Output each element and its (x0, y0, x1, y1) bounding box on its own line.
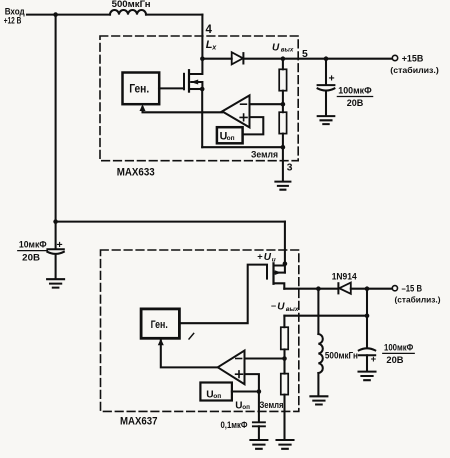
wire Земля rail (202, 146, 283, 148)
dashed box MAX637 (101, 250, 299, 411)
svg-text:(стабилиз.): (стабилиз.) (390, 65, 439, 75)
svg-text:+: + (257, 252, 263, 262)
wire gate path (179, 265, 267, 324)
box U1 Ген. (oscillator) (123, 73, 160, 105)
wire Lx to diode (202, 58, 231, 60)
svg-text:вых: вых (286, 306, 299, 313)
wire R1 top (282, 59, 284, 70)
ground C1 (318, 116, 335, 124)
node feedback divider (281, 102, 286, 107)
svg-text:+: + (329, 73, 335, 85)
svg-text:1N914: 1N914 (332, 271, 358, 282)
inductor L2 500мкГн (318, 334, 322, 373)
node FB2 (282, 356, 287, 361)
label L2 value 500мкГн (325, 351, 358, 361)
wire noninverting input loop (243, 117, 264, 134)
svg-text:20В: 20В (386, 355, 403, 365)
node -Uвых label (271, 301, 299, 313)
label C4 value 100мкФ 20В (371, 343, 414, 366)
svg-text:U: U (272, 42, 280, 53)
label C1 value 100мкФ 20В (329, 73, 372, 109)
wire pin 3 to ground (282, 147, 284, 181)
op-amp A2 comparator (218, 351, 245, 385)
wire R1 to R2 (282, 91, 284, 113)
wire +12V rail to MAX637 (56, 221, 285, 223)
svg-text:100мкФ: 100мкФ (384, 343, 413, 353)
svg-text:+: + (57, 239, 63, 251)
ground pin3 (275, 182, 290, 190)
svg-text:оп: оп (242, 404, 250, 411)
pin 4 (206, 24, 213, 36)
wire diode to Uвых (243, 58, 283, 60)
node Земля label (251, 150, 278, 161)
svg-text:20В: 20В (347, 98, 364, 108)
wire inductor to ground (317, 373, 319, 396)
wire Uоп pin down (258, 392, 260, 423)
wire pin5 to +15V terminal (283, 58, 392, 60)
node Uвых (281, 56, 286, 61)
ground L2 (310, 396, 327, 404)
node Q1 source junction (200, 87, 205, 92)
svg-text:Ген.: Ген. (129, 82, 149, 96)
wire inductor to Lx corner (146, 14, 202, 16)
svg-text:Земля: Земля (251, 150, 278, 161)
inductor L1 500мкГн (110, 10, 146, 15)
label +15В (стабилиз.) (390, 54, 439, 75)
terminal +15V (392, 55, 397, 60)
svg-text:5: 5 (302, 49, 308, 60)
wire Q2 source rail (284, 288, 318, 290)
svg-text:оп: оп (227, 135, 235, 142)
wire gate to Ген. (159, 87, 184, 89)
capacitor C2 10мкФ (53, 219, 58, 224)
resistor R1 (279, 69, 286, 90)
svg-text:Земля: Земля (260, 400, 284, 410)
wire to diode D2 (318, 288, 338, 290)
wire R2 bottom (282, 134, 284, 148)
svg-text:+12 В: +12 В (4, 15, 22, 25)
wire inverting input 2 (245, 357, 285, 359)
wire node to R4 (283, 359, 285, 374)
wire R4 to ground (283, 395, 285, 440)
svg-text:оп: оп (213, 393, 221, 400)
diode D2 1N914 (337, 283, 339, 293)
node +Uи junction (283, 261, 288, 266)
pin 5 (302, 49, 308, 60)
wire Q1 source down (201, 89, 203, 147)
pin 3 (287, 163, 293, 174)
resistor R3 (281, 327, 288, 349)
svg-text:(стабилиз.): (стабилиз.) (395, 295, 441, 305)
svg-text:–15 В: –15 В (402, 283, 423, 293)
node +15V junction (324, 56, 329, 61)
wire -Uвых feedback (284, 315, 367, 317)
diode D1 (232, 52, 243, 64)
wire input to inductor (27, 14, 110, 16)
svg-text:+15В: +15В (402, 54, 424, 65)
ground R4 (277, 440, 294, 449)
box U4 Uоп reference (200, 383, 232, 401)
box U3 Ген. (oscillator) (141, 309, 179, 338)
wire diode to -15V terminal (351, 288, 392, 290)
node -Uвых junction (365, 313, 370, 318)
wire -Uвых to R3 (283, 316, 285, 328)
svg-text:MAX637: MAX637 (120, 416, 158, 428)
box U2 Uоп reference (217, 127, 243, 143)
capacitor C1 100мкФ (325, 59, 327, 85)
dashed box MAX633 (100, 36, 298, 161)
node output cap junction (365, 286, 370, 291)
svg-text:MAX633: MAX633 (117, 166, 155, 178)
node Uвых label (272, 42, 294, 53)
resistor R4 (281, 374, 288, 395)
wire A1 output to Ген. (143, 107, 223, 112)
wire R3 to node (283, 349, 285, 358)
wire Lx2 down to inductor (317, 289, 319, 334)
node Lx junction (200, 56, 205, 61)
op-amp A1 comparator (222, 95, 249, 127)
label 500мкГн (112, 0, 151, 9)
transistor Q1 MOSFET (184, 59, 202, 92)
transistor Q2 MOSFET (267, 263, 285, 288)
wire +Uи down (284, 222, 286, 264)
label C2 value 10мкФ 20В (19, 239, 63, 262)
svg-text:–: – (271, 301, 276, 311)
svg-text:U: U (264, 252, 272, 263)
resistor R2 (279, 112, 286, 133)
wire A2 output to Ген. (161, 340, 218, 367)
node +Uи label (257, 252, 276, 264)
wire Lx vertical pin 4 (201, 15, 203, 59)
node Uоп pin junction (257, 389, 262, 394)
svg-text:4: 4 (206, 24, 213, 36)
label C3 value 0,1мкФ (221, 420, 248, 430)
svg-text:100мкФ: 100мкФ (338, 86, 371, 96)
label MAX633 (117, 166, 155, 178)
artifact slash (189, 333, 194, 339)
wire input column down (55, 15, 57, 222)
svg-text:вых: вых (281, 47, 294, 54)
svg-text:+: + (371, 354, 377, 365)
svg-text:500мкГн: 500мкГн (112, 0, 151, 9)
capacitor C4 100мкФ (359, 348, 375, 350)
svg-text:3: 3 (287, 163, 293, 174)
wire noninverting input loop 2 (232, 374, 259, 391)
capacitor C3 0,1мкФ (253, 422, 265, 426)
label MAX637 (120, 416, 158, 428)
node Земля junction (281, 145, 286, 150)
node input junction (53, 12, 58, 17)
label D2 1N914 (332, 271, 358, 282)
node Lx2 junction (316, 286, 321, 291)
svg-text:500мкГн: 500мкГн (325, 351, 358, 361)
pin Uоп and Земля labels (235, 400, 283, 412)
svg-text:U: U (277, 302, 285, 313)
svg-text:10мкФ: 10мкФ (19, 240, 47, 250)
ground C2 (47, 279, 64, 287)
terminal -15V (392, 286, 397, 291)
svg-text:20В: 20В (22, 252, 40, 262)
node Вход +12В label (4, 6, 25, 26)
wire output node down (366, 289, 368, 348)
svg-text:Ген.: Ген. (151, 319, 168, 331)
wire inverting input (250, 103, 283, 105)
ground C3 (250, 440, 267, 449)
wire arrow into Ген. (140, 104, 146, 111)
label -15В (стабилиз.) (395, 283, 441, 304)
svg-text:0,1мкФ: 0,1мкФ (221, 420, 248, 430)
ground C4 (359, 372, 376, 381)
node Lx label (206, 39, 218, 51)
